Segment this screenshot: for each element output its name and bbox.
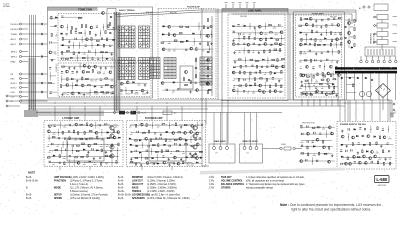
value label protection r2c1 [299, 67, 302, 70]
vertical bus x=228 [227, 100, 229, 143]
snubber capacitor C30 [371, 79, 373, 80]
resistor toneamp r3c7 [330, 32, 331, 35]
wire from terminal MON-1 [22, 82, 28, 84]
transistor psu r6c3 [349, 162, 352, 165]
rail lpower row2 [48, 131, 119, 133]
capacitor line-lower r3c5 [255, 72, 256, 74]
input terminal IN [19, 100, 21, 102]
power amp top label [155, 124, 160, 127]
rail line-lower row1 [233, 59, 283, 61]
transistor psu-left r3c3 [316, 90, 319, 93]
ground protection r6c8 [335, 94, 337, 97]
resistor line-lower r3c8 [270, 71, 271, 74]
power amp top label [147, 124, 152, 127]
muting diode D71 [351, 47, 353, 49]
resistor tone-upper r2c7 [89, 31, 90, 34]
capacitor toneamp r2c7 [331, 24, 333, 25]
junction tone-lower r3c1 [60, 78, 63, 81]
bus wire top diagonal 1 [115, 10, 200, 15]
value label lpower r4c12 [106, 145, 109, 148]
junction line-upper r2c3b [243, 32, 246, 35]
rail tone-upper row6 [60, 57, 113, 59]
value label psu r5c10 [389, 158, 391, 161]
rail toneamp row1 [301, 18, 342, 20]
value label line-upper r2c7 [264, 33, 267, 36]
resistor line-lower r5c5 [255, 83, 256, 86]
psu feed wire 1 [347, 100, 349, 121]
junction toneamp r4c2 [305, 38, 308, 41]
resistor rpower r1c7 [162, 124, 165, 125]
resistor protection r6c7 [330, 93, 333, 94]
pin label row [150, 161, 158, 164]
capacitor line-upper r4c8 [270, 44, 272, 45]
ground psu-left r3c2 [310, 92, 312, 95]
resistor lpower r5c11 [101, 149, 102, 152]
capacitor filter-lower r1c7 [195, 82, 197, 83]
junction lpower r1c4b [63, 124, 66, 127]
bus wire y=112 right [200, 112, 282, 114]
capacitor lpower r5c4 [66, 149, 67, 151]
resistor line-lower r3c2 [239, 71, 240, 74]
output transistor R Q3 [193, 154, 197, 158]
rail protection row3 [301, 73, 340, 75]
wire from terminal PB [22, 73, 28, 75]
transistor line-upper r4c10 [279, 43, 282, 46]
wire from terminal OUT [22, 96, 28, 98]
connector pin 5 [379, 49, 381, 55]
value label tone-lower r3c7 [90, 80, 93, 83]
capacitor tone-lower r2c3 [72, 72, 74, 73]
branch wire line-lower r1c3 [245, 57, 247, 64]
resistor rpower r1c4 [146, 124, 147, 127]
shaded switch shaft band (tone) [114, 12, 121, 112]
junction lpower r6c13 [116, 155, 119, 158]
svg-text:MC/MM: MC/MM [3, 6, 10, 8]
svg-text:1. Unless otherwise specified: 1. Unless otherwise specified, all resis… [246, 176, 305, 179]
branch wire tone-upper r6c6 [87, 55, 89, 62]
resistor line-upper r4c9 [275, 43, 278, 44]
power amp top label [89, 124, 94, 127]
remote speaker terminal 3 [255, 147, 258, 150]
transistor protection r3c8 [337, 74, 340, 77]
capacitor line-lower r2c6 [261, 66, 263, 67]
branch wire rpower r4c3 [142, 142, 144, 149]
diode tone-upper r6c3 [71, 57, 73, 59]
bus wire y=100 [20, 99, 392, 101]
svg-text:TUNER: TUNER [11, 34, 18, 36]
speaker feed wire x=220.5 [220, 113, 222, 145]
main speaker terminal 1 [213, 147, 216, 150]
resistor lpower r6c11 [105, 155, 108, 156]
chain junction 0 [211, 19, 214, 22]
svg-text:B+ B+: B+ B+ [118, 191, 125, 193]
resistor filter-upper r2c4 [179, 33, 182, 34]
rectifier diode D300 [341, 77, 343, 79]
poweramp bottom stub 0 [59, 167, 61, 171]
resistor lpower r5c2 [55, 149, 58, 150]
svg-text:(1.1.5kHz, 2.3kHz, 3.6kHz): (1.1.5kHz, 2.3kHz, 3.6kHz) [147, 191, 175, 193]
transistor lpower r2c14 [117, 131, 120, 134]
junction lpower r4c1b [47, 143, 50, 146]
transistor line-lower r6c7 [262, 91, 265, 94]
wire bundle to tone section y=83 [28, 82, 48, 84]
rail tone-lower row1 [63, 65, 116, 67]
resistor tone-upper r5c8 [101, 52, 104, 53]
value label tone-lower r2c9 [103, 72, 106, 75]
transistor psu r5c3 [353, 155, 356, 158]
svg-text:EPAD: EPAD [11, 60, 17, 63]
right edge label 3 [393, 40, 398, 43]
junction tone-under-grid r2c2 [125, 89, 128, 92]
value label line-lower r5c1 [233, 86, 235, 89]
transformer secondary lead 4 [362, 74, 364, 101]
box R output stage board [149, 139, 186, 161]
junction protection r1c7b [331, 59, 334, 62]
branch wire lpower r7c5 [68, 159, 70, 166]
capacitor tone-left r7c1 [49, 68, 51, 69]
value label line-upper r2c3 [243, 33, 245, 36]
poweramp bottom stub 1 [89, 167, 91, 171]
svg-text:B+ B-: B+ B- [26, 194, 32, 196]
poweramp feed wire 0 [54, 106, 56, 121]
capacitor lpower r6c5 [69, 156, 71, 157]
junction protection r2c1b [300, 65, 303, 68]
value label line-lower r6c4 [247, 92, 249, 95]
resistor line-lower r4c5 [254, 78, 255, 81]
power amp top label [195, 124, 200, 127]
resistor filter-upper r4c7 [196, 48, 197, 51]
svg-text:SPEAKERS: SPEAKERS [132, 197, 145, 200]
output transistor L Q0 [110, 126, 114, 130]
resistor tone-upper r3c9 [107, 38, 108, 41]
svg-text:AUX-2: AUX-2 [11, 43, 17, 46]
resistor line-upper r3c7 [265, 38, 266, 41]
resistor lpower r3c9 [90, 138, 93, 139]
svg-text:HIGH CUT: HIGH CUT [132, 184, 144, 186]
speaker feed wire x=214 [213, 113, 215, 145]
resistor lpower r4c13 [112, 144, 113, 147]
transistor rpower r3c11 [179, 137, 182, 140]
capacitor tone-upper r5c4 [78, 52, 79, 54]
capacitor tone-upper r3c3 [75, 38, 76, 40]
resistor line-upper r5c9 [274, 49, 277, 50]
resistor lpower r6c12 [110, 156, 113, 157]
junction lpower r4c4 [62, 143, 65, 146]
junction toneamp r4c5b [319, 38, 322, 41]
branch wire line-upper r3c2 [238, 35, 240, 42]
transistor filter-lower r1c1 [161, 82, 164, 85]
junction tone-lower r5c2b [67, 91, 70, 94]
resistor protection r4c2 [305, 80, 308, 81]
rail protection row5 [301, 86, 338, 88]
resistor tone-upper r3c6 [91, 38, 92, 41]
resistor psu r2c8 [380, 136, 381, 139]
branch wire protection r5c2 [305, 83, 307, 90]
junction lpower r7c6 [73, 161, 76, 164]
value label tone-under-grid r1c4 [137, 84, 140, 87]
rail line-lower row3 [232, 72, 283, 74]
transistor toneamp r1c3 [309, 17, 312, 20]
chain resistor 0 [207, 19, 208, 22]
transistor tone-lower r4c10 [110, 85, 113, 88]
branch wire lpower r5c14 [116, 147, 118, 154]
capacitor line-upper r4c2 [237, 43, 239, 44]
junction toneamp r6c2b [303, 51, 306, 54]
transistor tone-under-grid r1c1 [120, 82, 123, 85]
junction tone-upper r2c6 [84, 32, 87, 35]
power amp top label [73, 124, 78, 127]
bus junction x=345 [345, 103, 346, 104]
transistor line-upper r1c6 [258, 25, 261, 28]
value label relay-drive r3c1 [300, 141, 303, 144]
resistor protection r6c1 [301, 92, 302, 95]
feed terminal 2 [127, 112, 129, 114]
value label lpower r7c8 [83, 163, 85, 166]
capacitor protection r2c4 [319, 66, 321, 67]
svg-text:B+ B-: B+ B- [142, 113, 147, 115]
resistor tone-lower r1c1 [62, 66, 65, 67]
junction lpower r7c2b [53, 161, 56, 164]
wire bus to speaker gnd [202, 165, 209, 167]
wire between relays 2 [381, 28, 383, 32]
diode toneamp r5c6 [324, 44, 326, 46]
capacitor line-lower r6c3 [243, 91, 245, 92]
ground line-upper r3c1 [232, 39, 234, 42]
junction tone-upper r4c4 [78, 44, 81, 47]
output transistor R Q0 [193, 126, 197, 130]
svg-text:PROTECTOR: PROTECTOR [302, 123, 315, 125]
rail rpower row7 [129, 162, 202, 164]
value label lpower r4c3 [57, 145, 59, 148]
value label relay-drive r5c3 [313, 154, 316, 157]
svg-text:PB-338: PB-338 [240, 16, 248, 18]
tone box bottom label 9 [134, 93, 139, 96]
value label rpower r3c9 [169, 140, 172, 143]
svg-text:TREBLE: TREBLE [132, 191, 142, 193]
transistor rpower r7c7 [163, 161, 166, 164]
branch wire rpower r5c5 [150, 148, 152, 155]
main spkr lead 1 [213, 144, 215, 146]
chain junction 3 [211, 43, 214, 46]
right edge label 2 [393, 32, 398, 35]
transformer tap terminal 7 [395, 60, 398, 63]
resistor rpower r3c8 [165, 139, 166, 142]
chain capacitor 4 [207, 51, 209, 52]
capacitor lpower r4c6 [72, 145, 73, 147]
capacitor relay-drive r1c2 [307, 126, 308, 128]
box remote speaker terminals [240, 144, 263, 163]
branch wire lpower r4c5 [67, 141, 69, 148]
bus junction x=55 [55, 103, 56, 104]
value label toneamp r3c8 [334, 33, 337, 36]
resistor toneamp r2c1 [299, 25, 302, 26]
capacitor tone-upper r4c5 [85, 45, 87, 46]
junction protection r5c1b [299, 85, 302, 88]
branch wire lpower r7c6 [73, 159, 75, 166]
capacitor relay-drive r2c4 [319, 133, 321, 134]
resistor line-lower r4c2 [238, 78, 239, 81]
power amp top label [113, 124, 118, 127]
resistor lpower r2c8 [84, 132, 85, 135]
branch wire lpower r4c4 [62, 141, 64, 148]
connector pin 3 [373, 49, 375, 55]
transistor filter-lower r1c9 [206, 82, 209, 85]
muting value label 1 [350, 26, 353, 29]
svg-text:Note : Due to continued resear: Note : Due to continued research for imp… [280, 203, 381, 207]
rail protection row6 [302, 92, 339, 94]
psu feed wire 6 [387, 100, 389, 121]
branch wire filter-upper r2c7 [199, 30, 201, 38]
junction tone-lower r4c3 [71, 84, 74, 87]
transistor line-lower r2c9 [275, 66, 278, 69]
resistor line-upper r3c4 [249, 36, 250, 39]
fuse holder terminal 2 [293, 147, 295, 149]
value label line-lower r3c7 [264, 73, 266, 76]
capacitor tone pot C1 [110, 16, 112, 17]
transistor lpower r2c1 [47, 130, 50, 133]
junction line-lower r5c1b [233, 84, 236, 87]
wire from terminal EPAD [22, 61, 28, 63]
remote spkr lead 3 [256, 144, 258, 146]
capacitor toneamp r6c6 [327, 51, 328, 53]
branch wire protection r4c3 [311, 77, 313, 84]
svg-text:AMP VOLTAGE: AMP VOLTAGE [54, 176, 71, 179]
rail psu-left row2 [304, 83, 334, 85]
speaker feed wire x=244.5 [244, 113, 246, 145]
value label protection r1c7 [331, 61, 333, 64]
capacitor psu r2c5 [362, 135, 364, 136]
value label psu-left r2c3 [313, 84, 315, 87]
branch wire lpower r1c3 [60, 122, 62, 129]
resistor tone-lower r4c6 [88, 85, 91, 86]
capacitor rpower r5c2 [135, 150, 136, 152]
capacitor rpower r3c7 [160, 137, 161, 139]
resistor filter-lower r2c9 [208, 89, 211, 90]
resistor lpower r3c10 [97, 136, 98, 139]
capacitor rpower r7c9 [173, 162, 174, 164]
capacitor tone-upper r3c8 [101, 38, 102, 40]
wire aux terminal 2 [8, 105, 20, 107]
capacitor relay-drive r4c1 [301, 145, 302, 147]
capacitor rpower r4c10 [179, 144, 180, 146]
diode filter-upper r2c1 [162, 34, 164, 36]
value label rpower r7c13 [191, 164, 194, 167]
branch wire toneamp r4c2 [305, 36, 307, 43]
resistor line-lower r1c9 [277, 59, 278, 62]
capacitor lpower r1c2 [54, 125, 56, 126]
svg-text:BASS: BASS [132, 186, 139, 189]
value label psu r4c8 [376, 152, 379, 155]
transistor psu r6c5 [358, 161, 361, 164]
psu feed wire 3 [363, 100, 365, 121]
value label lpower r6c4 [63, 157, 66, 160]
branch wire lpower r1c10 [95, 122, 97, 129]
bus junction x=372 [372, 100, 373, 101]
resistor toneamp r4c4 [315, 39, 316, 42]
capacitor rpower r3c15 [199, 137, 200, 139]
ground line-lower r4c9 [278, 79, 280, 82]
junction toneamp r3c8b [334, 31, 337, 34]
ground tone-lower r1c2 [68, 67, 70, 70]
resistor rpower r4c11 [185, 144, 188, 145]
fold shading streak [200, 168, 345, 175]
rail relay-drive row4 [300, 146, 333, 148]
transistor tone-lower r5c3 [71, 92, 74, 95]
ground lpower r5c12 [105, 151, 107, 154]
resistor psu r6c8 [377, 161, 378, 164]
transistor relay-drive r1c6 [328, 126, 331, 129]
junction rpower r3c13 [190, 138, 193, 141]
diode lpower r2c12 [107, 132, 109, 134]
resistor protection r1c2 [304, 60, 307, 61]
junction protection r5c5b [321, 85, 324, 88]
capacitor toneamp r1c6 [327, 19, 329, 20]
filter resistor R41 [183, 78, 184, 81]
tone shaft wire 1 [116, 12, 118, 111]
rail line-upper row1 [234, 25, 284, 27]
wire from fuse [295, 148, 302, 150]
resistor psu-left r1c2 [307, 76, 310, 77]
junction tone-upper r4c3 [72, 44, 75, 47]
diode rpower r4c1 [130, 144, 132, 146]
diode line-lower r2c1 [234, 66, 236, 68]
capacitor line-upper r4c6 [258, 44, 260, 45]
chain junction 9 [211, 91, 214, 94]
wire bundle to tone section y=101 [28, 100, 48, 102]
input terminal AUX-1 [19, 38, 21, 40]
poweramp feed wire 7 [181, 106, 183, 121]
ground lpower r6c9 [93, 157, 95, 160]
junction psu r2c10b [388, 136, 391, 139]
wire relay 2 [375, 33, 377, 35]
transistor protection r4c6 [326, 79, 329, 82]
capacitor line-upper r1c10 [279, 24, 280, 26]
resistor line-upper r3c3 [244, 36, 245, 39]
input terminal TAPE-1 [19, 50, 21, 52]
tone box bottom label 8 [126, 93, 131, 96]
diode tone-lower r5c4 [78, 92, 80, 94]
junction line-upper r5c5b [252, 49, 255, 52]
transistor psu r2c3 [352, 136, 355, 139]
resistor rpower r2c9 [178, 132, 181, 133]
switch matrix filter low-cut [150, 58, 160, 79]
shaded horizontal band [24, 111, 104, 117]
transistor lpower r3c13 [113, 136, 116, 139]
junction line-lower r5c7 [264, 84, 267, 87]
resistor line-upper r1c8 [269, 25, 272, 26]
chain transistor 8 [207, 83, 210, 86]
wire relay 0 [375, 16, 377, 18]
ground rpower r2c6 [160, 133, 162, 136]
branch wire rpower r6c3 [140, 154, 142, 161]
power amp top label [163, 124, 168, 127]
value label tone-upper r6c11 [111, 58, 114, 61]
resistor toneamp r5c5 [318, 44, 321, 45]
bus junction x=202 [202, 100, 203, 101]
junction line-upper r2c7b [265, 32, 268, 35]
input terminal PHONO-2 [19, 28, 21, 30]
resistor tone-upper r2c3 [71, 31, 72, 34]
branch wire protection r2c5 [324, 63, 326, 70]
value label protection r5c1 [299, 87, 302, 90]
fuse F3 box [163, 111, 172, 114]
power amp top label [57, 124, 62, 127]
input terminal EPAD [19, 60, 21, 62]
junction rpower r1c8 [168, 124, 171, 127]
diode tone-lower r3c3 [71, 78, 73, 80]
bus wire y=112 [36, 112, 200, 114]
resistor psu r5c2 [347, 157, 348, 160]
